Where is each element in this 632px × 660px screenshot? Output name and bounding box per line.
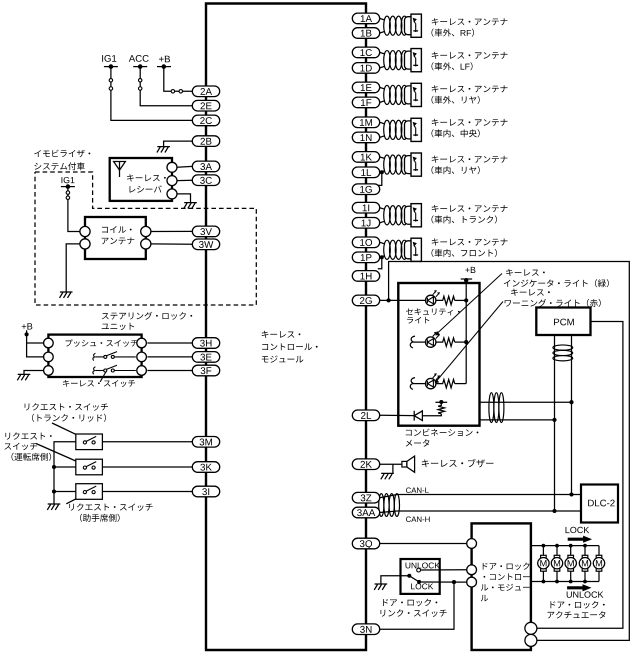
leader line keyless switch <box>100 372 106 382</box>
leader line (passenger) <box>66 499 76 504</box>
ground (buzzer) <box>381 473 394 479</box>
LED emission arrows <box>433 374 436 378</box>
keyless receiver U2 (box) <box>110 158 172 201</box>
terminal circle (steering left 2) <box>44 352 54 362</box>
wire node 2G up and right to door lock module <box>389 262 630 641</box>
wire switch LOCK to door lock module <box>421 581 467 583</box>
connector pin 2L <box>352 410 379 421</box>
wire diode to resistor <box>422 414 441 416</box>
connector pin 3E <box>192 352 219 363</box>
lamp wire hook <box>410 378 415 390</box>
keyless buzzer BZ1 <box>402 461 407 467</box>
wire pin to antenna coil <box>380 87 385 89</box>
wire pin to antenna coil <box>380 242 385 244</box>
keyless buzzer label <box>422 459 494 467</box>
antenna element mark A4 <box>415 128 417 136</box>
wire <box>378 172 382 185</box>
net IG1 label <box>102 55 116 62</box>
resistor <box>436 380 455 388</box>
DLC-2 U7 (box) <box>581 485 618 523</box>
keyless antenna label A1 <box>432 18 508 25</box>
connector pin 3N <box>352 624 379 635</box>
keyless antenna label A3 <box>432 85 508 92</box>
keyless antenna label A7 <box>432 238 508 245</box>
connector pin 1G <box>352 184 379 195</box>
switch SW1 (push switch row 3E) <box>93 353 96 360</box>
wire IG1 to pin 2C <box>111 67 192 121</box>
wire <box>378 257 382 268</box>
antenna cable coil A1 <box>384 16 391 35</box>
door lock actuator motor M1 <box>542 546 544 556</box>
ground (coil antenna) <box>60 292 73 298</box>
wire pin to antenna coil <box>380 52 385 54</box>
connector pin 1D <box>352 63 379 74</box>
ground (pin 2B) <box>157 147 170 153</box>
request switch SW5 (passenger) (box) <box>76 484 103 500</box>
antenna connector A2 <box>405 51 417 69</box>
antenna cable coil A6 <box>384 206 391 225</box>
combination meter U5 (box) <box>398 283 479 426</box>
UNLOCK direction arrow <box>567 584 591 591</box>
antenna cable coil A5 <box>384 155 391 174</box>
combination meter label <box>406 429 479 437</box>
wire steering to pin 3E <box>147 356 192 358</box>
wire switch UNLOCK to door lock module <box>421 569 467 571</box>
security light label <box>406 308 460 315</box>
wire passenger switch to pin 3I <box>102 491 192 493</box>
antenna cable coil A2 <box>384 51 391 70</box>
junction <box>52 489 56 493</box>
LED lamp (circle) <box>426 378 436 388</box>
switch contacts SW4 (driver) <box>83 466 86 469</box>
wire switch to ground <box>381 576 409 584</box>
LOCK label (switch) <box>411 583 433 589</box>
wire +B branch <box>27 342 44 344</box>
connector pin 1E <box>352 82 379 93</box>
terminal circle (door lock left 3) <box>467 577 477 587</box>
cable coil (PCM CAN pair) <box>553 345 573 350</box>
+B feed line inside meter <box>465 279 467 384</box>
leader line (indicator light green) <box>438 274 502 333</box>
wire pin to antenna coil <box>380 122 385 124</box>
door lock actuator motor M2 <box>556 546 558 556</box>
switch contacts SW3 (trunk) <box>83 441 86 444</box>
terminal circle (door lock right 2) <box>525 634 537 646</box>
+B feed bar (meter) <box>461 278 472 280</box>
antenna connector A1 <box>405 17 417 35</box>
wire pin 3Z to CAN-L <box>380 495 581 498</box>
request switch (driver) label <box>5 432 51 439</box>
request switch SW3 (trunk) (box) <box>76 434 103 450</box>
connector pin 1O <box>352 237 379 248</box>
wire <box>455 299 467 301</box>
LOCK label (actuators) <box>566 527 590 533</box>
wire trunk switch to pin 3M <box>102 441 192 443</box>
LED lamp (circle) <box>426 295 436 305</box>
leader line (warning light red) <box>437 302 503 381</box>
connector pin 2C <box>192 115 219 126</box>
antenna cable coil A4 <box>384 120 391 139</box>
connector pin 2B <box>192 136 219 147</box>
keyless antenna label A5 <box>432 156 508 163</box>
connector pin 2G <box>352 295 379 306</box>
DLC-2 label <box>588 500 614 507</box>
inline connector on IG1 wire <box>109 79 113 83</box>
net IG1 label (immobilizer) <box>62 177 75 183</box>
keyless antenna label A2 <box>432 52 508 59</box>
wire pin to antenna coil <box>380 157 385 159</box>
ground (request switches) <box>47 504 60 510</box>
wire <box>413 383 425 385</box>
lamp wire hook <box>410 336 415 348</box>
terminal circle (door lock right 1) <box>525 622 537 634</box>
dashed box (immobilizer system) <box>35 172 256 305</box>
door lock actuator motor M3 <box>570 546 572 556</box>
LED lamp (circle) <box>426 337 436 347</box>
resistor <box>436 338 455 346</box>
actuator bus (unlock side) <box>531 581 599 583</box>
net +B label (meter) <box>465 267 475 273</box>
junction <box>380 170 384 174</box>
connector pin 2K <box>352 459 379 470</box>
switch contacts <box>417 568 421 572</box>
connector pin 3K <box>192 462 219 473</box>
junction <box>552 418 556 422</box>
connector pin 3M <box>192 437 219 448</box>
wire ACC to pin 2E <box>140 67 192 106</box>
terminal circle (steering right 1) <box>137 338 147 348</box>
inline connector on ACC wire <box>138 79 142 83</box>
antenna element mark A7 <box>415 248 417 257</box>
wire driver switch to pin 3K <box>102 466 192 468</box>
antenna element mark A5 <box>415 162 417 171</box>
net +B label <box>159 56 170 63</box>
terminal circle (coil antenna right 2) <box>141 239 151 249</box>
antenna connector A5 <box>405 156 417 174</box>
terminal circle (receiver pin 3) <box>167 189 177 199</box>
wire coil antenna to ground <box>66 244 80 292</box>
wire pin 2B to ground <box>164 141 193 146</box>
steering lock unit U4 (box) <box>48 335 141 377</box>
wire steering unit to ground <box>24 371 44 375</box>
door lock actuator label <box>550 601 604 609</box>
coil antenna U3 (box) <box>85 217 146 259</box>
push switch label <box>66 339 138 346</box>
connector pin 3Z <box>352 492 379 503</box>
door lock actuator motor M4 <box>584 546 586 556</box>
connector pin 1M <box>352 117 379 128</box>
antenna symbol <box>114 162 126 178</box>
wire PCM to CAN-L <box>571 335 573 495</box>
antenna connector A4 <box>405 121 417 139</box>
connector pin 1P <box>352 252 379 263</box>
switch SW2 (keyless switch row 3F) <box>93 367 96 374</box>
IG1 feed bar <box>104 66 118 68</box>
terminal circle (receiver pin 2) <box>167 176 177 186</box>
antenna element mark A3 <box>415 93 417 102</box>
junction <box>464 340 468 344</box>
connector pin 2E <box>192 100 219 111</box>
CAN-H label <box>406 516 430 522</box>
door lock link switch SW6 (box) <box>401 559 440 594</box>
wire pin 2G to combination meter <box>380 299 399 301</box>
connector pin 3Q <box>352 538 379 549</box>
junction <box>464 298 468 302</box>
connector pin 1N <box>352 132 379 143</box>
junction (CAN-H) <box>552 509 556 513</box>
resistor <box>436 296 455 304</box>
keyless receiver label <box>127 174 166 181</box>
net +B label (steering) <box>22 323 33 329</box>
wire meter CAN lower <box>480 419 555 421</box>
+B terminal dot <box>25 332 29 336</box>
connector pin 3H <box>192 338 219 349</box>
cable coil (meter CAN pair) <box>489 393 494 423</box>
connector pin 1K <box>352 152 379 163</box>
wire receiver to ground <box>177 194 191 203</box>
keyless antenna label A4 <box>432 119 508 126</box>
antenna cable coil A3 <box>384 85 391 104</box>
wire <box>455 341 467 343</box>
antenna connector A7 <box>405 241 417 259</box>
ground (link switch) <box>374 584 387 590</box>
connector pin 3I <box>192 486 219 497</box>
module label <box>262 331 301 338</box>
wire node to pin 3N <box>380 582 454 629</box>
request switch (trunk lid) label <box>25 403 108 411</box>
connector pin 3F <box>192 365 219 376</box>
antenna element mark A1 <box>415 24 417 33</box>
request switch SW4 (driver) (box) <box>76 459 103 475</box>
wire PCM right to door lock module <box>536 322 623 629</box>
switch contacts SW5 (passenger) <box>83 491 86 494</box>
terminal circle (steering right 2) <box>137 352 147 362</box>
ground (steering) <box>17 374 30 380</box>
inline connector on IG1 wire (immobilizer) <box>66 191 70 195</box>
wire steering to pin 3F <box>147 370 192 372</box>
steering lock unit label <box>102 312 192 320</box>
wire pin 1P to pin 1H <box>380 256 382 258</box>
wire receiver to pin 3C <box>177 179 192 181</box>
junction <box>439 400 443 404</box>
door lock link switch label <box>383 599 437 607</box>
wire <box>54 466 76 468</box>
connector pin 1F <box>352 97 379 108</box>
cable coil (CAN pair) <box>379 494 384 517</box>
wire pin 1L to pin 1G <box>380 171 382 173</box>
inline connector on +B wire <box>171 90 175 94</box>
wire coil antenna to pin 3W <box>151 243 192 245</box>
PCM U6 (box) <box>536 308 590 336</box>
wire +B to pin 2A <box>164 67 193 92</box>
+B feed bar <box>157 66 171 68</box>
terminal circle (coil antenna left 1) <box>80 226 90 236</box>
connector pin 1C <box>352 47 379 58</box>
terminal circle (coil antenna right 1) <box>141 226 151 236</box>
wire coil antenna to pin 3V <box>151 230 192 232</box>
wire <box>54 491 76 493</box>
request switch (passenger) label <box>69 503 152 511</box>
door lock control module U8 (box) <box>472 523 531 650</box>
wire pin to antenna coil <box>380 18 385 20</box>
connector pin 1J <box>352 218 379 229</box>
junction (node 2G) <box>387 298 391 302</box>
connector pin 3AA <box>352 507 379 518</box>
immobilizer system label <box>34 150 90 158</box>
net ACC label <box>129 55 149 62</box>
wire <box>398 299 425 301</box>
wire pin 3Q to door lock module <box>380 543 467 545</box>
wire IG1 to coil antenna <box>68 187 80 232</box>
wire pin 3AA to CAN-H <box>380 511 581 513</box>
keyless switch label <box>63 380 135 387</box>
actuator bus (lock side) <box>531 545 599 547</box>
junction (3N node) <box>452 580 456 584</box>
wire switch commons to ground <box>54 442 76 504</box>
terminal circle (door lock left 1) <box>467 539 477 549</box>
resistor R4 (vertical) <box>438 402 444 414</box>
UNLOCK label (actuators) <box>567 591 604 597</box>
keyless antenna label A6 <box>432 205 508 212</box>
terminal circle (coil antenna left 2) <box>80 239 90 249</box>
connector pin 1I <box>352 202 379 213</box>
antenna connector A6 <box>405 206 417 224</box>
door lock module label <box>483 563 530 570</box>
junction <box>380 255 384 259</box>
termination bar <box>435 401 447 403</box>
junction <box>52 465 56 469</box>
wire steering to pin 3H <box>147 342 192 344</box>
wire <box>413 341 425 343</box>
wire pin to antenna coil <box>380 208 385 210</box>
connector pin 3V <box>192 226 219 237</box>
wire +B to steering unit <box>27 330 44 357</box>
switch lever <box>409 576 419 582</box>
keyless indicator light label <box>506 269 545 276</box>
wire pin 2L to meter <box>380 414 415 416</box>
terminal circle (door lock left 2) <box>467 565 477 575</box>
antenna cable coil A7 <box>384 240 391 259</box>
LOCK direction arrow <box>568 536 592 543</box>
connector pin 3C <box>192 175 219 186</box>
ground (receiver) <box>184 203 197 209</box>
wire PCM to CAN-H <box>554 335 556 511</box>
terminal circle (steering left 1) <box>44 338 54 348</box>
CAN-L label <box>406 487 429 493</box>
wire meter CAN upper <box>480 401 572 403</box>
terminal circle (receiver pin 1) <box>167 162 177 172</box>
connector pin 1A <box>352 13 379 24</box>
keyless warning light label <box>511 289 550 296</box>
IG1 feed bar (immobilizer) <box>61 186 75 188</box>
leader line (trunk lid) <box>52 423 76 434</box>
connector pin 3W <box>192 239 219 250</box>
leader line (driver) <box>36 444 76 462</box>
UNLOCK label (switch) <box>406 562 440 568</box>
antenna element mark A6 <box>415 213 417 222</box>
diode D1 <box>414 411 422 421</box>
junction (+B) <box>464 278 468 282</box>
coil antenna label <box>102 226 132 233</box>
wire <box>455 383 467 385</box>
connector pin 2A <box>192 86 219 97</box>
door lock actuator motor M5 <box>598 546 600 556</box>
ACC feed bar <box>133 66 147 68</box>
connector pin 1H <box>352 271 379 282</box>
connector pin 1L <box>352 167 379 178</box>
wire pin 2K to buzzer <box>380 463 402 465</box>
terminal circle (steering left 3) <box>44 366 54 376</box>
PCM label <box>554 319 574 326</box>
antenna element mark A2 <box>415 58 417 66</box>
terminal circle (steering right 3) <box>137 366 147 376</box>
wire receiver to pin 3A <box>177 165 192 168</box>
junction (CAN-L) <box>569 492 573 496</box>
connector pin 1B <box>352 28 379 39</box>
LED emission arrows <box>433 333 436 337</box>
antenna connector A3 <box>405 86 417 104</box>
connector pin 3A <box>192 161 219 172</box>
wire buzzer to ground <box>392 464 394 473</box>
LED emission arrows <box>433 291 436 295</box>
junction <box>569 400 573 404</box>
keyless control module U1 (box) <box>206 4 366 651</box>
